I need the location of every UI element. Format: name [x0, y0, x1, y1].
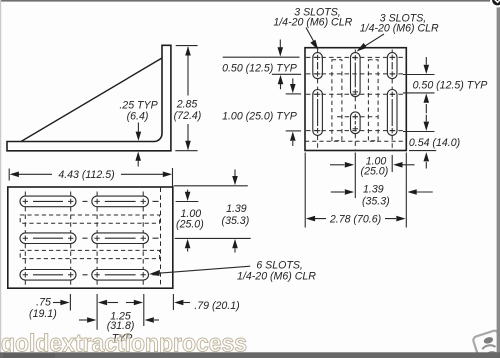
- top view bottom ext tick 4: [172, 294, 174, 310]
- front slot left top: [313, 53, 323, 79]
- leader .25 arrow down to plate inner face: [136, 123, 142, 141]
- front dim 2.78 line and arrows: [306, 216, 406, 222]
- row2 middle dash: [83, 237, 88, 239]
- front view row centerlines: [306, 57, 406, 130]
- svg-text:4.43 (112.5): 4.43 (112.5): [58, 169, 114, 181]
- row1 middle dash: [83, 200, 88, 202]
- front bottom ext plate right: [405, 153, 407, 228]
- dim .75 arrows: [53, 300, 118, 306]
- top view row centerline dashes right of slots: [153, 201, 159, 274]
- dim 2.85 (72.4) extension line top: [176, 45, 198, 47]
- front slot left bottom: [313, 90, 323, 136]
- svg-text:(72.4): (72.4): [174, 110, 202, 122]
- svg-text:.75: .75: [36, 297, 51, 309]
- front left ext line row2: [272, 73, 301, 75]
- front dim 0.50 right arrows: [424, 57, 430, 113]
- dim 1.00 arrows: [185, 190, 191, 252]
- bottom bar left smudge: [3, 354, 55, 358]
- front dim 1.00 bottom arrows: [330, 162, 415, 168]
- front right ext line row2: [403, 74, 435, 76]
- leader 6 SLOTS line: [149, 266, 250, 276]
- front left ext line row3: [286, 93, 301, 95]
- dim 1.39 arrows: [232, 170, 238, 253]
- leader 3 SLOTS left: [306, 28, 318, 51]
- svg-text:1.39: 1.39: [226, 203, 247, 215]
- front dim 1.00 left arrows: [290, 78, 296, 146]
- dim .79 arrows: [126, 300, 190, 306]
- stamp bottom right: [472, 330, 500, 358]
- top view right ext line plate top: [174, 185, 248, 187]
- dim 4.43 extension tick right: [172, 168, 174, 187]
- top view hidden slot band 1: [20, 215, 159, 223]
- front view column centerlines: [318, 50, 393, 150]
- svg-text:1.00 (25.0) TYP: 1.00 (25.0) TYP: [222, 110, 297, 122]
- dim 4.43 extension tick left: [8, 169, 10, 181]
- svg-text:(35.3): (35.3): [222, 215, 250, 227]
- front view plate outline: [305, 48, 406, 151]
- front dim 1.39 bottom arrows: [331, 189, 433, 195]
- top view plate outline: [8, 187, 173, 288]
- front right ext line row4: [403, 131, 435, 133]
- front right ext line row3: [403, 92, 435, 94]
- top view centerline verticals: [25, 192, 143, 289]
- svg-text:(19.1): (19.1): [29, 308, 57, 320]
- svg-text:1/4-20 (M6) CLR: 1/4-20 (M6) CLR: [273, 16, 352, 28]
- top view hidden line vertical leg face: [160, 188, 162, 289]
- top view bottom ext tick 2: [96, 294, 98, 330]
- top view hidden slot band 2: [20, 250, 159, 258]
- svg-text:0.50 (12.5) TYP: 0.50 (12.5) TYP: [222, 62, 297, 74]
- front slot middle bottom: [351, 112, 361, 134]
- svg-text:1/4-20 (M6) CLR: 1/4-20 (M6) CLR: [237, 270, 316, 282]
- svg-text:1.39: 1.39: [363, 184, 384, 196]
- slot row1 left: [20, 196, 76, 207]
- svg-text:1/4-20 (M6) CLR: 1/4-20 (M6) CLR: [360, 22, 439, 34]
- corner icon top right: [490, 0, 500, 8]
- front view hidden band 1: [332, 60, 342, 141]
- front slot middle top: [351, 53, 361, 97]
- leader 3 SLOTS right: [357, 34, 385, 52]
- svg-text:(25.0): (25.0): [176, 219, 204, 231]
- front dim 0.50 left arrows: [278, 40, 284, 90]
- slot row3 right: [92, 270, 149, 281]
- svg-text:2.85: 2.85: [176, 99, 198, 111]
- svg-text:.79 (20.1): .79 (20.1): [194, 300, 239, 312]
- front right ext line bottom: [409, 150, 436, 152]
- slot row1 right: [92, 196, 149, 207]
- svg-text:(6.4): (6.4): [127, 111, 149, 123]
- front left ext line row1: [223, 56, 300, 58]
- dim 2.85 (72.4) extension line bottom: [175, 150, 197, 152]
- front slot right bottom: [387, 90, 397, 136]
- dim 1.25 arrows: [79, 317, 159, 323]
- slot row2 left: [20, 233, 76, 244]
- front bottom ext right column: [391, 155, 393, 172]
- svg-text:0.50 (12.5) TYP: 0.50 (12.5) TYP: [413, 80, 488, 92]
- leader .25 arrow up to plate bottom face: [135, 152, 141, 167]
- dim 4.43 dimension line and arrows: [10, 172, 173, 178]
- front left ext line row4: [286, 130, 301, 132]
- front view hidden bottom plate face: [305, 140, 406, 142]
- front bottom ext mid column: [354, 153, 356, 199]
- page border left: [0, 0, 1, 358]
- slot row3 left: [20, 270, 76, 281]
- svg-text:(25.0): (25.0): [361, 165, 389, 177]
- front bottom ext plate left: [304, 153, 306, 228]
- gusset diagonal edge: [21, 58, 162, 142]
- dim 2.85 (72.4) dimension line and arrows: [185, 46, 191, 150]
- slot row2 right: [92, 233, 149, 244]
- row3 middle dash: [83, 274, 88, 276]
- page border right bar: [497, 0, 500, 358]
- top view right ext line row1: [176, 201, 199, 203]
- svg-text:(35.3): (35.3): [362, 196, 390, 208]
- svg-text:2.78 (70.6): 2.78 (70.6): [329, 213, 381, 225]
- front dim 0.54 arrows: [424, 115, 430, 169]
- front view hidden band 2: [368, 60, 378, 141]
- top view bottom ext tick 3: [143, 294, 145, 326]
- top view bottom ext tick 1: [69, 294, 71, 311]
- front slot right top: [387, 53, 397, 79]
- page border top: [0, 0, 500, 2]
- page bottom bar: [0, 352, 500, 358]
- svg-text:0.54 (14.0): 0.54 (14.0): [409, 137, 460, 149]
- side view bracket outline: [7, 45, 171, 151]
- top view right ext line row2: [175, 237, 251, 239]
